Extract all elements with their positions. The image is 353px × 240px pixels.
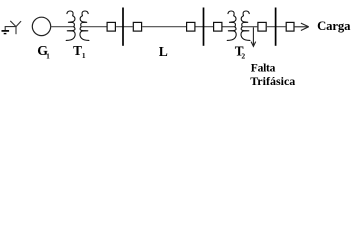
generator G1 circle [32, 17, 50, 35]
transformer T2 [227, 11, 236, 40]
breaker square 6 [286, 22, 294, 31]
wire: line L [142, 26, 186, 28]
wire + load arrow [295, 23, 309, 30]
svg-text:Trifásica: Trifásica [250, 74, 295, 86]
svg-text:2: 2 [241, 51, 245, 60]
wire: generator to T1 [51, 26, 74, 28]
wire: breaker 4 to T2 [223, 26, 236, 28]
breaker square 1 [107, 22, 115, 31]
bus bar 1 [122, 8, 124, 46]
wire: breaker 1 to breaker 2 [116, 26, 133, 28]
breaker square 2 [133, 22, 141, 31]
breaker square 4 [214, 22, 222, 31]
wire: T1 to breaker 1 [81, 26, 106, 28]
bus bar 3 [275, 8, 277, 46]
svg-text:1: 1 [46, 51, 50, 60]
breaker square 3 [187, 22, 195, 31]
svg-text:L: L [159, 44, 168, 59]
transformer T1 [66, 11, 75, 40]
fault arrow (Falta Trifasica) [251, 27, 256, 46]
svg-text:T: T [73, 43, 82, 58]
wye symbol [11, 21, 21, 34]
ground [2, 27, 17, 34]
wire: breaker 3 to breaker 4 [196, 26, 214, 28]
breaker square 5 [258, 22, 266, 31]
wire: T2 to breaker 5 [242, 26, 257, 28]
svg-text:Carga: Carga [317, 19, 351, 33]
bus bar 2 [203, 8, 205, 46]
svg-text:1: 1 [82, 51, 86, 60]
wire: breaker 5 to breaker 6 [267, 26, 286, 28]
svg-text:Falta: Falta [251, 62, 276, 74]
